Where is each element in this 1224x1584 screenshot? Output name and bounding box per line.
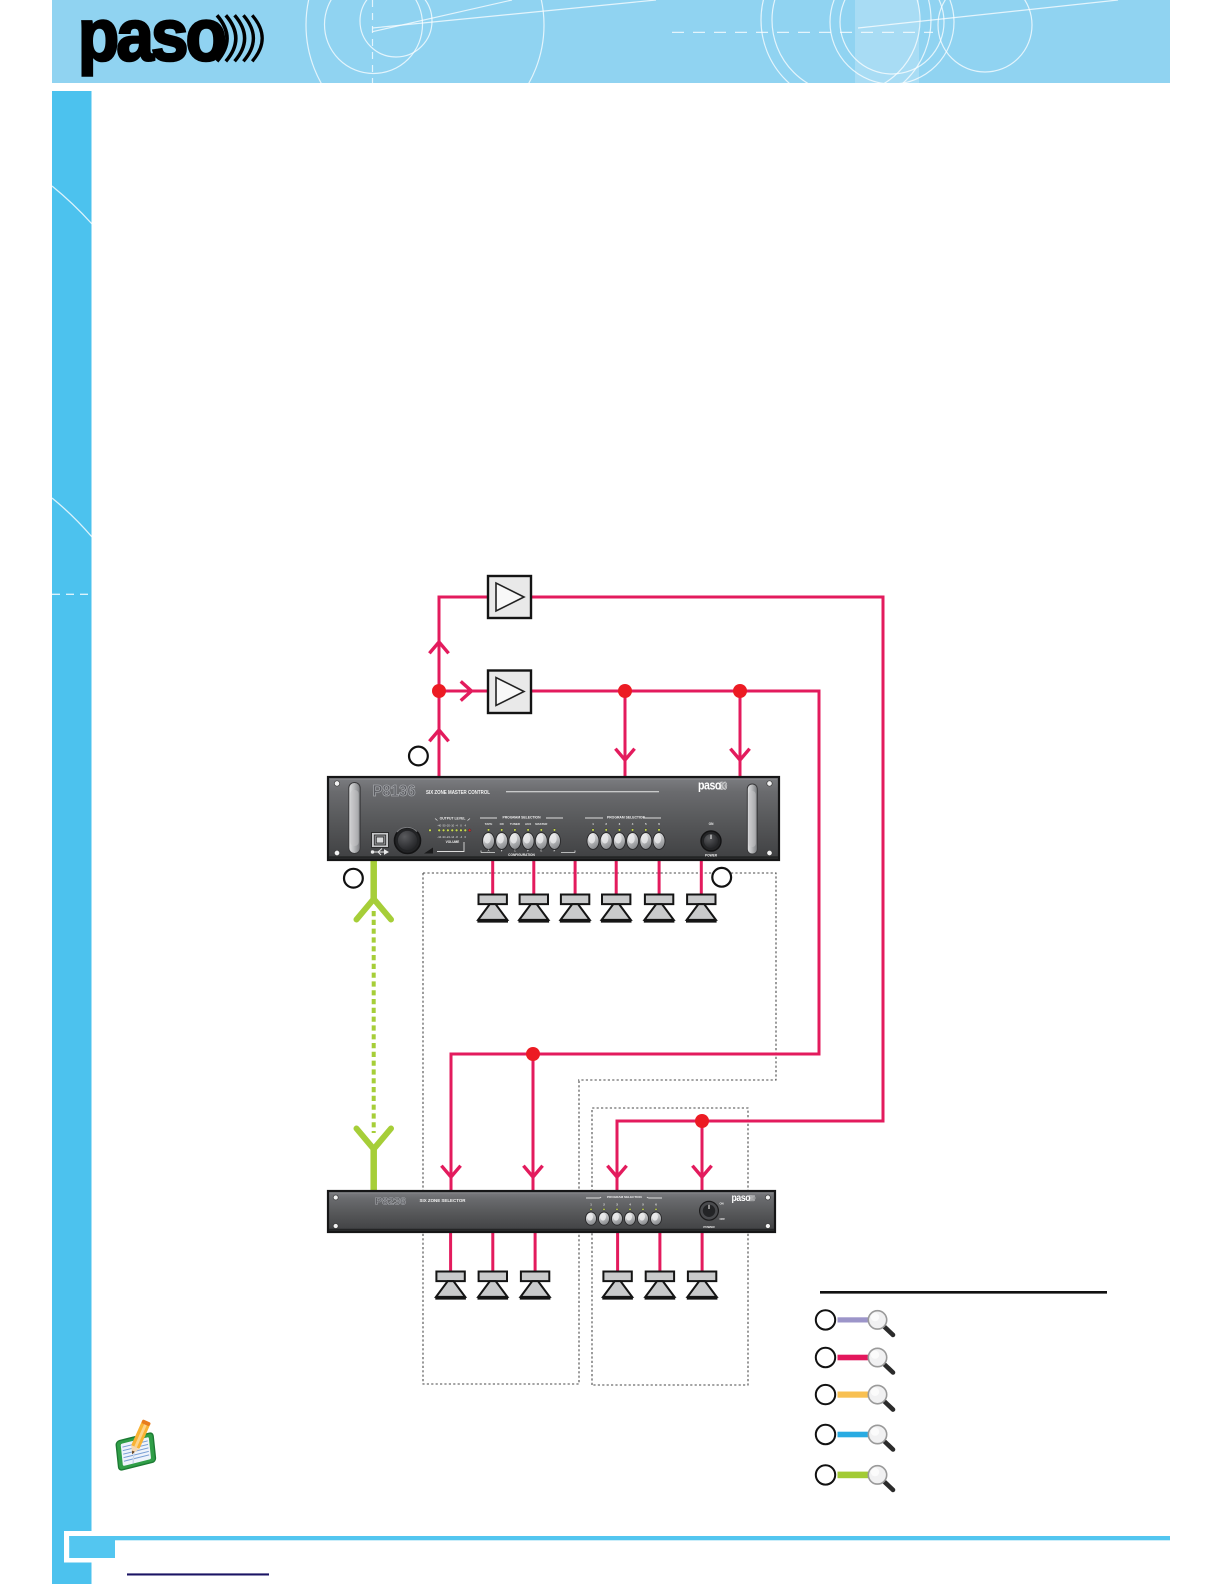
footer blue box bbox=[69, 1536, 115, 1558]
svg-text:MASTER: MASTER bbox=[535, 822, 548, 826]
footer sidebar notch bbox=[64, 1531, 92, 1563]
wire P8236 to speaker SP12 bbox=[701, 1230, 704, 1274]
svg-text:CD: CD bbox=[500, 822, 504, 826]
speaker SP4 bbox=[601, 895, 632, 922]
zone box dotted rect A (speakers 1-6) bbox=[423, 873, 776, 1385]
speaker SP3 bbox=[560, 895, 591, 922]
speaker SP10 bbox=[602, 1272, 633, 1299]
svg-text:P8136: P8136 bbox=[373, 783, 416, 800]
header blue band bbox=[52, 0, 1170, 83]
wire P8136 to speaker SP2 bbox=[532, 858, 535, 898]
callout circle node C bbox=[712, 868, 731, 887]
speaker SP6 bbox=[686, 895, 717, 922]
rack unit P8236 SIX ZONE SELECTOR bbox=[328, 1191, 775, 1232]
amplifier A2 bbox=[488, 671, 531, 714]
junction node J1 bbox=[432, 684, 446, 698]
footer link underline bbox=[127, 1573, 269, 1575]
wire: amp A1 output loop to right and down to P8236 bbox=[531, 597, 883, 1191]
wire P8236 to speaker SP8 bbox=[491, 1230, 494, 1274]
wire P8236 to speaker SP10 bbox=[616, 1230, 619, 1274]
callout circle node B bbox=[344, 869, 363, 888]
junction node J5 bbox=[695, 1114, 709, 1128]
arrow down into P8136 right bbox=[732, 750, 749, 760]
legend row 2 (power line) bbox=[816, 1348, 893, 1373]
arrow down into P8236 in1 bbox=[443, 1167, 460, 1177]
wire P8136 to speaker SP3 bbox=[574, 858, 577, 898]
arrow down into P8136 left bbox=[617, 750, 634, 760]
svg-text:A: A bbox=[488, 849, 490, 853]
wire: branch down into P8236 at x=533 bbox=[532, 1054, 535, 1191]
speaker SP5 bbox=[644, 895, 675, 922]
amplifier A1 bbox=[488, 576, 531, 618]
junction node J4 bbox=[526, 1047, 540, 1061]
wire P8136 to speaker SP1 bbox=[491, 858, 494, 898]
wire: junction to amp A2 bbox=[439, 690, 488, 693]
arrow down into P8236 in2 bbox=[525, 1167, 542, 1177]
svg-text:C: C bbox=[514, 849, 516, 853]
left sidebar bar bbox=[52, 91, 92, 1584]
svg-text:AUX: AUX bbox=[525, 822, 531, 826]
speaker SP11 bbox=[645, 1272, 676, 1299]
legend row 3 (control line) bbox=[816, 1385, 893, 1410]
wire: branches down into P8136 top bbox=[624, 691, 627, 777]
svg-text:TUNER: TUNER bbox=[510, 822, 521, 826]
wire: P8136 output up to amplifiers bbox=[439, 597, 883, 1191]
wire P8236 to speaker SP9 bbox=[534, 1230, 537, 1274]
rack unit P8136 SIX ZONE MASTER CONTROL bbox=[328, 777, 779, 860]
svg-text:PROGRAM SELECTION: PROGRAM SELECTION bbox=[502, 816, 541, 820]
svg-text:SIX ZONE SELECTOR: SIX ZONE SELECTOR bbox=[420, 1198, 467, 1203]
arrow up to junction bbox=[431, 730, 448, 740]
paso logo bbox=[78, 0, 262, 77]
svg-text:P8236: P8236 bbox=[375, 1196, 406, 1208]
svg-text:VOLUME: VOLUME bbox=[446, 840, 460, 844]
svg-text:POWER: POWER bbox=[705, 854, 718, 858]
svg-text:-10: -10 bbox=[450, 824, 454, 828]
wire: amp A2 output loop down to P8236 bbox=[451, 691, 819, 1191]
svg-text:ON: ON bbox=[720, 1202, 724, 1206]
footer blue band bbox=[69, 1536, 1170, 1540]
svg-text:PROGRAM SELECTION: PROGRAM SELECTION bbox=[607, 816, 646, 820]
legend title rule bbox=[820, 1291, 1107, 1294]
arrow down into P8236 in4 bbox=[694, 1167, 711, 1177]
wire P8236 to speaker SP11 bbox=[658, 1230, 661, 1274]
callout circle node A bbox=[409, 747, 428, 766]
svg-text:SIX ZONE MASTER CONTROL: SIX ZONE MASTER CONTROL bbox=[426, 790, 490, 796]
wire P8236 to speaker SP7 bbox=[449, 1230, 452, 1274]
wire P8136 to speaker SP5 bbox=[658, 858, 661, 898]
svg-text:ON: ON bbox=[709, 822, 714, 826]
svg-text:OFF: OFF bbox=[720, 1217, 726, 1221]
legend row 5 (link line) bbox=[816, 1465, 893, 1490]
svg-text:paso: paso bbox=[698, 778, 721, 793]
arrow up to amp A1 bbox=[431, 642, 448, 652]
green link cable P8136 to P8236 bbox=[357, 856, 392, 1194]
svg-text:POWER: POWER bbox=[703, 1225, 715, 1229]
speaker SP9 bbox=[520, 1272, 551, 1299]
speaker SP8 bbox=[478, 1272, 509, 1299]
svg-text:paso: paso bbox=[732, 1193, 751, 1204]
svg-text:PROGRAM SELECTION: PROGRAM SELECTION bbox=[607, 1195, 642, 1199]
wire P8136 to speaker SP4 bbox=[615, 858, 618, 898]
speaker SP1 bbox=[477, 895, 508, 922]
svg-text:CONFIGURATION: CONFIGURATION bbox=[508, 853, 535, 857]
wire: branch down into P8236 at x=702 bbox=[701, 1121, 704, 1191]
wire P8136 to speaker SP6 bbox=[700, 858, 703, 898]
arrow down into P8236 in3 bbox=[609, 1167, 626, 1177]
speaker SP12 bbox=[687, 1272, 718, 1299]
speaker SP7 bbox=[435, 1272, 466, 1299]
zone box dotted rect B (lower right speakers) bbox=[592, 1108, 748, 1385]
junction node J3 bbox=[733, 684, 747, 698]
arrow right to amp A2 bbox=[462, 683, 472, 700]
speaker SP2 bbox=[519, 895, 550, 922]
junction node J2 bbox=[618, 684, 632, 698]
svg-text:-14: -14 bbox=[450, 835, 454, 839]
svg-text:E: E bbox=[540, 849, 542, 853]
note icon (notepad with pencil) bbox=[112, 1419, 160, 1470]
svg-text:OUTPUT LEVEL: OUTPUT LEVEL bbox=[440, 816, 466, 820]
legend row 1 (signal line) bbox=[816, 1310, 893, 1335]
legend row 4 (data line) bbox=[816, 1425, 893, 1450]
svg-text:TAPE: TAPE bbox=[485, 822, 493, 826]
